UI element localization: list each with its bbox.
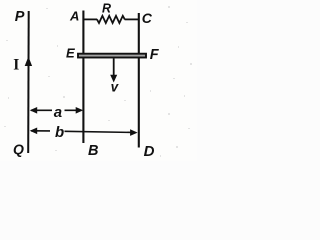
svg-text:F: F (150, 47, 160, 63)
resistor R zigzag (97, 16, 125, 23)
svg-text:P: P (15, 9, 25, 25)
wire resistor to C (125, 18, 139, 20)
svg-text:v: v (111, 79, 120, 94)
sliding rod EF (78, 54, 146, 58)
velocity arrow v (113, 59, 115, 78)
rail A-B (left conductor of loop) (82, 11, 84, 144)
dimension a arrow right segment (65, 109, 82, 111)
svg-text:a: a (54, 104, 62, 121)
svg-text:D: D (144, 143, 155, 160)
wire PQ (long straight conductor) (27, 11, 30, 153)
svg-text:I: I (13, 56, 19, 73)
svg-text:B: B (88, 143, 98, 159)
wire A to resistor (83, 18, 97, 20)
dimension b arrow right segment (65, 131, 136, 132)
svg-text:Q: Q (13, 141, 24, 157)
dimension b arrow left segment (31, 130, 50, 132)
svg-text:b: b (55, 124, 64, 141)
current arrow on wire PQ (25, 57, 32, 67)
svg-text:E: E (66, 46, 75, 61)
rail C-D (right conductor of loop) (138, 13, 140, 148)
svg-text:C: C (142, 10, 153, 26)
dimension a arrow left segment (31, 109, 52, 111)
svg-text:A: A (69, 9, 79, 24)
svg-text:R: R (102, 2, 111, 16)
